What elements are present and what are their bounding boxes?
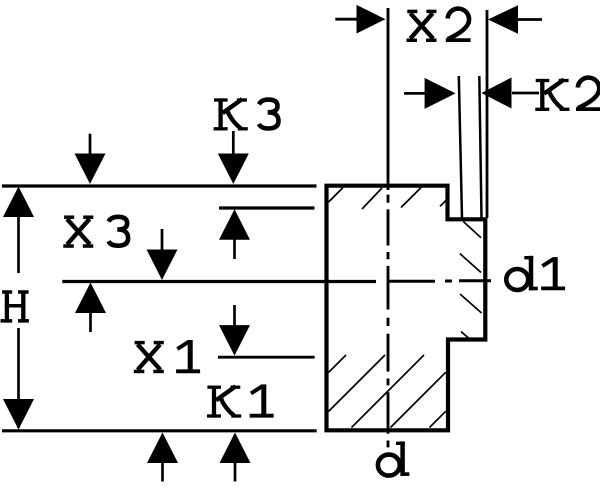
dimension line D (X1 level) (218, 356, 315, 359)
dimension line B (K3 depth level) (219, 206, 315, 209)
dimension H vertical line (upper segment) (17, 189, 20, 273)
extension line K2 right (slanted) (479, 76, 481, 218)
arrow K2 left (right-pointing) (404, 92, 426, 95)
center line horizontal dash segment right of axis crossing (389, 280, 436, 283)
arrow H bottom (down) (3, 399, 34, 430)
hatch lower band line 2 (329, 355, 385, 411)
arrow X2 left (right-pointing at center line) (335, 18, 358, 21)
arrow K1 left (up, under line E) (161, 462, 164, 482)
label K1 (207, 386, 241, 418)
arrow X3 under C (up, at line C) (89, 303, 92, 332)
hatch upper tick 4 (440, 201, 446, 207)
label H (1, 291, 29, 323)
center line horizontal dash through right edge (d1 leader) (459, 279, 491, 282)
hatch right protrusion line 1 (463, 222, 481, 238)
arrow K2 right (left-pointing) (512, 92, 539, 95)
hatch right protrusion line 4 (461, 332, 469, 339)
center line vertical dash-dot through part (387, 195, 390, 448)
hatch upper tick 2 (362, 188, 382, 209)
arrow K3 lower (up, at line B) (233, 238, 236, 259)
label X1 (134, 343, 164, 372)
dimension line C (X3 / center level, merges with horizontal center line) (62, 280, 376, 283)
dimension line A (top face level) (2, 184, 317, 187)
arrow H top (up) (3, 187, 34, 218)
hatch right protrusion line 2 (460, 254, 481, 273)
hatch lower band line 3 (352, 355, 425, 428)
hatch upper tick 3 (401, 188, 421, 208)
hatch right protrusion line 3 (460, 294, 482, 313)
arrow X2 right (left-pointing at right extension) (516, 18, 542, 21)
extension line X2 right (486, 10, 489, 218)
center line vertical solid upper segment (387, 8, 390, 190)
arrow K3 upper (down, at line A) (232, 131, 235, 165)
extension line K2 left (slanted) (459, 76, 462, 218)
center line horizontal dot (445, 280, 452, 283)
arrow K1 right (up, under line E) (234, 462, 237, 482)
part outline (cross-section) (327, 186, 486, 431)
arrow X3 upper (down, at line A) (89, 134, 92, 165)
arrow X1 (down, at line D) (233, 305, 236, 335)
label K2 (535, 79, 569, 111)
label d (378, 441, 410, 476)
hatch lower band line 1 (329, 355, 346, 372)
dimension H vertical line (lower segment) (17, 328, 20, 428)
label d1 (506, 256, 538, 291)
hatch upper tick 1 (329, 188, 343, 203)
hatch lower band line 5 (430, 411, 446, 427)
label K3 (214, 98, 248, 130)
label X3 (63, 217, 93, 246)
hatch lower band line 4 (391, 372, 446, 427)
label X2 (407, 11, 437, 40)
arrow X3 lower (down, at line C) (161, 229, 164, 260)
dimension line E (bottom face level) (2, 429, 317, 432)
